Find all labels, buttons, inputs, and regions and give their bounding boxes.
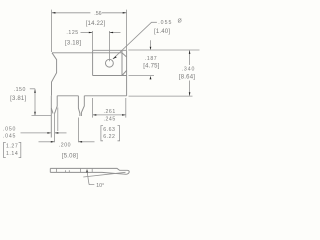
svg-text:6.63: 6.63 — [103, 127, 115, 133]
svg-text:[3.18]: [3.18] — [65, 41, 81, 47]
svg-text:.050: .050 — [3, 127, 16, 133]
svg-text:.340: .340 — [182, 66, 196, 72]
svg-text:10°: 10° — [96, 183, 104, 189]
svg-text:.055: .055 — [158, 20, 172, 26]
svg-text:.045: .045 — [3, 134, 16, 140]
svg-text:[14.22]: [14.22] — [86, 21, 106, 27]
svg-text:.56: .56 — [94, 11, 101, 17]
svg-text:.187: .187 — [145, 56, 157, 62]
svg-text:1.27: 1.27 — [6, 144, 18, 150]
svg-text:.200: .200 — [59, 143, 71, 149]
svg-text:6.22: 6.22 — [103, 134, 115, 140]
svg-text:.245: .245 — [104, 117, 116, 123]
svg-text:Ø: Ø — [178, 19, 183, 25]
svg-text:.150: .150 — [14, 87, 26, 93]
svg-text:[3.81]: [3.81] — [10, 96, 26, 102]
svg-text:.125: .125 — [66, 30, 78, 36]
svg-text:1.14: 1.14 — [6, 151, 18, 157]
svg-text:.261: .261 — [104, 109, 116, 115]
svg-text:[5.08]: [5.08] — [62, 154, 78, 160]
svg-text:[1.40]: [1.40] — [154, 29, 170, 35]
svg-text:[8.64]: [8.64] — [179, 75, 195, 81]
svg-text:[4.75]: [4.75] — [143, 64, 159, 70]
